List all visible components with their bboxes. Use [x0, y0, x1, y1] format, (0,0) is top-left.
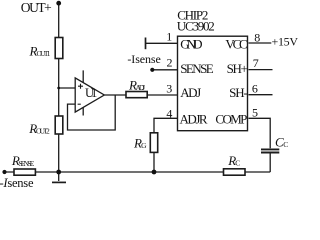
svg-text:4: 4	[166, 107, 172, 121]
svg-text:C: C	[283, 140, 288, 149]
svg-text:SH+: SH+	[227, 61, 248, 76]
svg-text:8: 8	[254, 30, 260, 44]
svg-text:ADJ: ADJ	[180, 85, 201, 100]
svg-text:3: 3	[166, 82, 172, 96]
svg-text:OUT+: OUT+	[21, 0, 52, 15]
svg-text:GND: GND	[180, 36, 202, 51]
svg-text:U1: U1	[85, 86, 97, 100]
svg-text:-Isense: -Isense	[127, 52, 160, 66]
svg-text:SENSE: SENSE	[18, 159, 34, 168]
svg-text:OUT1: OUT1	[37, 49, 51, 58]
svg-text:5: 5	[252, 105, 258, 119]
svg-text:COMP: COMP	[215, 111, 247, 126]
svg-text:1: 1	[166, 29, 172, 43]
svg-text:OUT2: OUT2	[36, 127, 50, 136]
svg-text:ADJ: ADJ	[136, 83, 146, 92]
svg-text:C: C	[235, 158, 240, 167]
svg-text:SENSE: SENSE	[180, 61, 214, 76]
svg-text:6: 6	[252, 82, 258, 96]
svg-text:UC3902: UC3902	[177, 19, 215, 34]
svg-text:7: 7	[253, 56, 259, 70]
svg-text:G: G	[141, 141, 147, 150]
svg-text:+15V: +15V	[272, 34, 299, 48]
svg-text:ADJR: ADJR	[180, 111, 208, 126]
svg-text:-Isense: -Isense	[0, 176, 34, 188]
svg-text:2: 2	[167, 56, 173, 70]
svg-text:SH-: SH-	[229, 85, 248, 100]
svg-text:VCC: VCC	[225, 36, 247, 51]
